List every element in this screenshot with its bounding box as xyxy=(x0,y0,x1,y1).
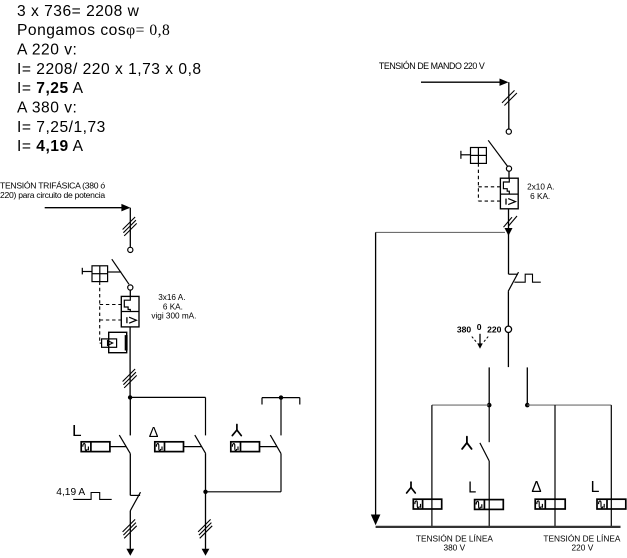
contactor coil star xyxy=(231,442,260,452)
dashed trip linkage right xyxy=(478,163,500,201)
svg-text:I= 7,25 A: I= 7,25 A xyxy=(17,80,84,97)
bottom bus xyxy=(376,526,621,528)
svg-text:4,19 A: 4,19 A xyxy=(56,487,85,498)
380V bus xyxy=(432,404,489,406)
selector labels 380 0 220 xyxy=(457,322,502,334)
star contact label xyxy=(462,437,472,449)
svg-text:3 x 736= 2208 w: 3 x 736= 2208 w xyxy=(17,3,140,20)
NC timed contact right xyxy=(509,273,519,275)
trip test box right xyxy=(471,148,487,164)
circuit breaker QF1 box xyxy=(121,296,139,327)
thermal element xyxy=(503,178,509,194)
link box to blade xyxy=(108,271,122,273)
labels TENSION DE LINEA xyxy=(416,533,621,552)
svg-text:TENSIÓN TRIFÁSICA (380 ó: TENSIÓN TRIFÁSICA (380 ó xyxy=(0,181,105,191)
two-phase slashes below breaker xyxy=(504,216,518,227)
contactor coil delta xyxy=(155,442,184,452)
svg-text:0: 0 xyxy=(477,322,482,332)
contact Kstar blade xyxy=(270,435,281,454)
220V bus xyxy=(527,404,611,406)
arrow into bottom bus xyxy=(371,515,381,526)
wire below breaker xyxy=(508,209,510,274)
left rail vertical xyxy=(375,232,377,514)
two-phase slashes top xyxy=(502,90,517,105)
direction arrow on spine xyxy=(505,228,513,236)
svg-text:L: L xyxy=(591,479,600,496)
wire into breaker xyxy=(129,290,131,296)
disconnector blade Q1 xyxy=(112,259,129,284)
svg-text:L: L xyxy=(72,423,82,440)
selector pole terminal xyxy=(505,326,511,332)
svg-text:6 KA.: 6 KA. xyxy=(163,302,183,311)
svg-text:A 220 v:: A 220 v: xyxy=(17,42,77,59)
wire: bus to delta branch xyxy=(130,396,205,398)
junction delta-star xyxy=(203,490,207,494)
magnetic element I> xyxy=(505,199,507,205)
T handle tick xyxy=(81,268,83,275)
wire: breaker to junction xyxy=(129,327,131,398)
svg-text:TENSIÓN DE MANDO 220 V: TENSIÓN DE MANDO 220 V xyxy=(379,61,485,71)
coil delta right xyxy=(535,499,565,509)
svg-text:Δ: Δ xyxy=(531,479,541,496)
svg-text:3x16 A.: 3x16 A. xyxy=(158,293,185,302)
NC timed contact (left branch) xyxy=(130,494,140,496)
svg-text:380 V: 380 V xyxy=(443,543,465,553)
three-phase slashes bottom-left xyxy=(123,519,137,538)
branch line to left rail xyxy=(376,231,505,233)
wire into breaker right xyxy=(508,171,510,178)
svg-text:L: L xyxy=(468,480,476,497)
wire delta coil branch xyxy=(554,405,556,527)
wire to selector xyxy=(507,291,509,326)
node 220 bus xyxy=(525,403,530,408)
calculation text block xyxy=(17,3,202,155)
node: disconnector bottom terminal xyxy=(128,285,133,290)
circuit breaker QF2 box xyxy=(500,178,518,209)
label 3x16 A / 6 KA / vigi 300 mA xyxy=(151,293,196,321)
toroid CT bar xyxy=(125,335,128,350)
breaker trip test box (crossed square) xyxy=(92,266,108,282)
svg-text:I= 7,25/1,73: I= 7,25/1,73 xyxy=(17,119,106,136)
thermal element xyxy=(124,296,130,311)
svg-text:220) para circuito de potencia: 220) para circuito de potencia xyxy=(0,190,105,200)
svg-text:A 380 v:: A 380 v: xyxy=(17,100,77,117)
three-phase slashes mid xyxy=(123,369,137,388)
label star coil right xyxy=(407,482,416,493)
wire star coil branch xyxy=(431,405,433,527)
svg-text:Δ: Δ xyxy=(149,425,159,441)
junction node xyxy=(128,395,132,399)
arrow to motor delta xyxy=(202,549,210,556)
node: disconnector top terminal xyxy=(128,247,133,252)
three-phase slashes top xyxy=(123,217,137,236)
wire L2 coil branch xyxy=(610,405,612,527)
coil L2 right xyxy=(597,499,626,509)
star branch bracket xyxy=(262,398,300,405)
svg-text:380: 380 xyxy=(457,324,472,334)
svg-text:220 V: 220 V xyxy=(572,543,594,553)
svg-text:I= 4,19 A: I= 4,19 A xyxy=(17,138,84,155)
pulse symbol xyxy=(514,274,540,282)
label star coil (drawn glyph) xyxy=(232,425,241,436)
svg-text:2x10 A.: 2x10 A. xyxy=(527,183,554,192)
three-phase slashes bottom-mid xyxy=(198,519,212,538)
disconnector blade right xyxy=(488,140,507,166)
svg-text:vigi 300 mA.: vigi 300 mA. xyxy=(151,312,196,321)
dashed trip linkage xyxy=(100,282,122,344)
label: TENSION TRIFASICA xyxy=(0,181,105,201)
magnetic element I> xyxy=(126,317,128,323)
svg-text:I= 2208/ 220 x 1,73 x 0,8: I= 2208/ 220 x 1,73 x 0,8 xyxy=(17,61,202,78)
contact KL (left branch) xyxy=(129,397,131,435)
node: disconnector bottom terminal xyxy=(506,166,511,171)
coil L right xyxy=(475,500,504,510)
wire L coil branch with star contact xyxy=(488,405,490,442)
selector throws xyxy=(488,367,490,405)
coil star right xyxy=(413,499,441,509)
svg-text:Pongamos cosφ= 0,8: Pongamos cosφ= 0,8 xyxy=(17,22,170,39)
node 380 bus xyxy=(487,403,492,408)
contactor coil L xyxy=(81,442,110,452)
wire: right spine top xyxy=(508,82,510,129)
svg-text:220: 220 xyxy=(487,324,502,334)
wire: left spine top xyxy=(129,208,131,248)
svg-text:6 KA.: 6 KA. xyxy=(530,192,550,201)
contact Kdelta blade xyxy=(195,435,206,454)
label 2x10 A / 6 KA xyxy=(527,183,554,202)
feed arrow left xyxy=(45,207,122,209)
feed arrow right xyxy=(421,81,500,83)
node: disconnector top terminal xyxy=(506,129,511,134)
selector position arrow xyxy=(479,334,481,344)
vigi differential module xyxy=(109,332,127,352)
arrow to motor L xyxy=(126,549,134,556)
wire: delta branch bottom xyxy=(205,492,207,549)
